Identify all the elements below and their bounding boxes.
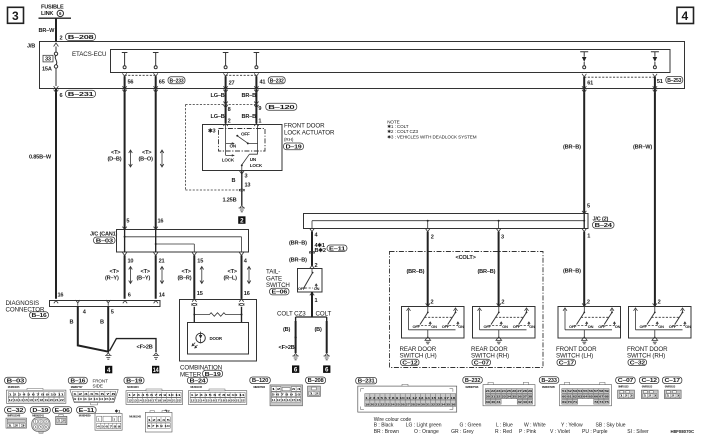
J/B box bbox=[40, 42, 685, 89]
rear door switch LH C-12 bbox=[402, 303, 465, 343]
svg-text:B✱2: B✱2 bbox=[315, 247, 326, 254]
svg-text:1: 1 bbox=[315, 298, 318, 304]
svg-text:MB807606: MB807606 bbox=[253, 385, 265, 389]
connector C-17 pinout bbox=[662, 377, 682, 384]
branch to second ground bbox=[110, 339, 157, 352]
svg-text:LG–B: LG–B bbox=[211, 93, 225, 99]
left branch wire (B) bbox=[295, 321, 297, 353]
svg-text:LINK: LINK bbox=[41, 11, 53, 17]
svg-text:0.85B–W: 0.85B–W bbox=[29, 155, 52, 161]
svg-text:1: 1 bbox=[587, 233, 590, 239]
connector B-03 pinout bbox=[5, 377, 27, 384]
wires J/C to combination meter bbox=[194, 255, 241, 299]
svg-text:1 2 3 4 5 6 7 8 9 10 11: 1 2 3 4 5 6 7 8 9 10 11 bbox=[191, 393, 246, 397]
fusible link label bbox=[41, 5, 64, 18]
svg-text:6: 6 bbox=[60, 93, 63, 99]
wire ETACS 51 down bbox=[654, 77, 656, 306]
svg-text:OFF: OFF bbox=[484, 324, 492, 329]
ECU pin ticks and dashed pairs bbox=[122, 73, 126, 76]
svg-text:(BR–B): (BR–B) bbox=[289, 240, 307, 246]
svg-text:(BR–B): (BR–B) bbox=[563, 269, 581, 275]
connector C-12 pinout bbox=[639, 377, 659, 384]
connector D-19 pinout bbox=[30, 407, 50, 414]
svg-text:4: 4 bbox=[682, 9, 689, 23]
svg-text:1 2 3: 1 2 3 bbox=[643, 394, 657, 398]
svg-text:C–17: C–17 bbox=[559, 361, 574, 367]
svg-text:FRONT DOOR: FRONT DOOR bbox=[284, 123, 325, 130]
svg-text:B–19: B–19 bbox=[205, 372, 221, 378]
svg-text:12 13 14 15 16 17 18 19 20 21: 12 13 14 15 16 17 18 19 20 21 22 bbox=[191, 399, 246, 403]
svg-text:3: 3 bbox=[12, 9, 19, 23]
svg-text:15A: 15A bbox=[42, 67, 52, 73]
svg-text:H8F08070C: H8F08070C bbox=[671, 429, 696, 434]
inline connector symbol bbox=[239, 189, 244, 191]
svg-text:(D–B): (D–B) bbox=[108, 156, 122, 162]
svg-text:ON: ON bbox=[458, 324, 464, 329]
svg-text:P : Pink: P : Pink bbox=[519, 429, 537, 435]
svg-text:V : Violet: V : Violet bbox=[550, 429, 571, 435]
svg-text:C–12: C–12 bbox=[642, 378, 657, 384]
svg-text:SB : Sky blue: SB : Sky blue bbox=[596, 423, 626, 429]
svg-text:56: 56 bbox=[128, 80, 134, 86]
svg-text:D–19: D–19 bbox=[32, 408, 48, 414]
svg-text:OFF: OFF bbox=[413, 324, 421, 329]
svg-text:69 70 71: 69 70 71 bbox=[562, 401, 578, 404]
svg-text:MU801015: MU801015 bbox=[190, 385, 202, 389]
front door lock actuator D-19 bbox=[223, 123, 258, 126]
svg-text:B–16: B–16 bbox=[32, 313, 47, 319]
svg-text:2: 2 bbox=[431, 300, 434, 306]
diagnosis ground wires bbox=[78, 306, 109, 352]
svg-text:B–16: B–16 bbox=[70, 378, 85, 384]
svg-text:2: 2 bbox=[228, 118, 231, 124]
svg-text:1.25B: 1.25B bbox=[223, 197, 237, 203]
svg-text:2: 2 bbox=[501, 300, 504, 306]
svg-text:MU801043: MU801043 bbox=[129, 414, 141, 418]
svg-text:0MR0153: 0MR0153 bbox=[665, 385, 676, 389]
svg-text:4: 4 bbox=[107, 367, 111, 374]
svg-text:0MR015348: 0MR015348 bbox=[7, 413, 21, 417]
tailgate switch output bbox=[310, 292, 314, 295]
page marker 3 bbox=[8, 7, 24, 23]
svg-text:E–11: E–11 bbox=[329, 246, 345, 252]
svg-text:B–24: B–24 bbox=[595, 223, 613, 229]
svg-text:(BR–B): (BR–B) bbox=[407, 269, 425, 275]
split bracket COLT variants bbox=[296, 317, 327, 321]
wire ETACS 27 to actuator bbox=[225, 76, 227, 123]
svg-text:✱3 : VEHICLES WITH DEADLOCK SY: ✱3 : VEHICLES WITH DEADLOCK SYSTEM bbox=[387, 134, 477, 139]
svg-text:2: 2 bbox=[315, 263, 318, 269]
svg-text:LOCK: LOCK bbox=[222, 157, 235, 162]
wire ETACS 41 to actuator bbox=[255, 76, 257, 123]
svg-text:21 22 23 24 25 26 27 28 29: 21 22 23 24 25 26 27 28 29 bbox=[486, 390, 533, 393]
svg-text:MU804645: MU804645 bbox=[8, 385, 20, 389]
deadlock dash-dot box bbox=[219, 129, 266, 152]
inline connector symbols bbox=[192, 303, 197, 305]
svg-text:B: B bbox=[70, 320, 74, 326]
svg-text:60 61 62 63 64 65 66 67 68: 60 61 62 63 64 65 66 67 68 bbox=[562, 396, 609, 399]
svg-text:LG : Light green: LG : Light green bbox=[406, 423, 442, 429]
svg-text:10: 10 bbox=[128, 258, 134, 264]
tailgate wire bbox=[311, 232, 313, 266]
svg-text:(BR–W): (BR–W) bbox=[633, 145, 652, 151]
svg-text:1 2 3: 1 2 3 bbox=[666, 394, 680, 398]
svg-text:L : Blue: L : Blue bbox=[496, 423, 513, 429]
svg-text:B–03: B–03 bbox=[96, 238, 113, 244]
svg-text:OFF: OFF bbox=[569, 324, 577, 329]
svg-text:OFF: OFF bbox=[241, 132, 250, 137]
svg-text:D–19: D–19 bbox=[286, 145, 302, 151]
svg-text:0M80KTW6: 0M80KTW6 bbox=[542, 385, 555, 389]
svg-text:27: 27 bbox=[229, 81, 235, 87]
svg-text:B–120: B–120 bbox=[252, 378, 268, 384]
connector C-32 pinout bbox=[5, 407, 26, 414]
svg-text:1 2 3 4 5: 1 2 3 4 5 bbox=[148, 418, 171, 422]
ground id 4 bbox=[105, 366, 112, 374]
svg-text:2: 2 bbox=[240, 218, 244, 225]
svg-text:ON: ON bbox=[588, 324, 594, 329]
svg-text:ON: ON bbox=[502, 324, 508, 329]
note text bbox=[387, 119, 477, 139]
ground id 6 bbox=[292, 365, 299, 373]
page marker 4 bbox=[677, 7, 694, 23]
svg-text:C–32: C–32 bbox=[7, 408, 24, 414]
COLT dash-dot variant box bbox=[390, 252, 544, 368]
svg-text:SI : Silver: SI : Silver bbox=[627, 429, 649, 435]
svg-text:51: 51 bbox=[657, 79, 663, 85]
svg-text:3: 3 bbox=[501, 234, 504, 240]
connector 2 B-208 bbox=[60, 33, 96, 41]
svg-text:5: 5 bbox=[587, 204, 590, 210]
connector B-24 pinout bbox=[187, 377, 207, 384]
svg-text:J/C (CAN1): J/C (CAN1) bbox=[90, 231, 118, 237]
rear door switch RH C-07 bbox=[473, 303, 536, 343]
svg-text:R : Red: R : Red bbox=[495, 429, 512, 435]
svg-text:1 2: 1 2 bbox=[57, 419, 66, 423]
ground id 6b bbox=[323, 365, 330, 373]
svg-text:<F>2B: <F>2B bbox=[137, 345, 153, 351]
inline connector symbol E-11 bbox=[309, 251, 314, 253]
svg-text:BR–W: BR–W bbox=[39, 28, 56, 34]
actuator ground wire pin 3 / 13 bbox=[240, 171, 244, 174]
svg-text:B–208: B–208 bbox=[68, 35, 94, 41]
connector B-232 pinout bbox=[463, 377, 483, 384]
right branch wire (B) bbox=[326, 321, 328, 353]
svg-text:UN: UN bbox=[250, 157, 257, 162]
svg-text:(RH): (RH) bbox=[284, 137, 294, 142]
meter inner box bbox=[188, 323, 249, 355]
svg-text:<T>: <T> bbox=[111, 150, 121, 156]
svg-text:ETACS-ECU: ETACS-ECU bbox=[72, 51, 106, 58]
svg-text:73 74 75: 73 74 75 bbox=[594, 401, 610, 404]
ECU driver pin 65 bbox=[153, 53, 159, 69]
svg-text:ON: ON bbox=[529, 324, 535, 329]
connector B-231 pinout bbox=[356, 377, 377, 384]
svg-text:30 31 32 33 34 35 36 37 38: 30 31 32 33 34 35 36 37 38 bbox=[486, 396, 533, 399]
svg-text:16: 16 bbox=[158, 219, 164, 225]
wire CAN from pin 56 bbox=[124, 76, 126, 229]
svg-text:65: 65 bbox=[159, 80, 165, 86]
svg-text:BR : Brown: BR : Brown bbox=[374, 429, 400, 435]
svg-text:ON: ON bbox=[615, 324, 621, 329]
svg-text:21: 21 bbox=[159, 258, 165, 264]
svg-text:OFF: OFF bbox=[298, 286, 306, 291]
svg-text:<F>2B: <F>2B bbox=[279, 345, 295, 351]
svg-text:B : Black: B : Black bbox=[374, 423, 394, 429]
svg-text:9 10 11 12 13 14 15 16: 9 10 11 12 13 14 15 16 bbox=[74, 397, 115, 401]
svg-text:1 2 3 4 5 6 7 8: 1 2 3 4 5 6 7 8 bbox=[73, 392, 116, 396]
svg-text:6: 6 bbox=[325, 367, 329, 374]
svg-text:C–32: C–32 bbox=[630, 361, 645, 367]
svg-text:Y : Yellow: Y : Yellow bbox=[561, 423, 583, 429]
svg-text:LG–B: LG–B bbox=[211, 114, 225, 120]
svg-text:16: 16 bbox=[244, 291, 250, 297]
wires J/C to diagnosis connector bbox=[125, 255, 156, 298]
svg-text:51 52 53 54 55 56 57 58 59: 51 52 53 54 55 56 57 58 59 bbox=[562, 390, 609, 393]
svg-text:0M80KTW6: 0M80KTW6 bbox=[465, 385, 478, 389]
arrow into J/B bbox=[54, 43, 59, 47]
svg-text:B–120: B–120 bbox=[268, 105, 294, 111]
ground id 2 bbox=[238, 216, 245, 224]
svg-text:B–231: B–231 bbox=[68, 92, 94, 98]
svg-text:E–06: E–06 bbox=[55, 408, 70, 414]
svg-text:DOOR: DOOR bbox=[210, 336, 223, 341]
wire BR-W from fusible link bbox=[55, 18, 57, 41]
svg-text:6 7 8 9 10: 6 7 8 9 10 bbox=[148, 424, 171, 428]
svg-text:B–19: B–19 bbox=[126, 378, 142, 384]
svg-text:<T>: <T> bbox=[110, 269, 120, 275]
svg-text:3 4: 3 4 bbox=[292, 387, 302, 391]
svg-text:61: 61 bbox=[587, 81, 593, 87]
svg-text:9: 9 bbox=[258, 106, 261, 112]
svg-text:(R–L): (R–L) bbox=[224, 276, 238, 282]
svg-text:1 2 3 4 5 6 7 8 9 10 11: 1 2 3 4 5 6 7 8 9 10 11 bbox=[128, 393, 182, 397]
svg-text:OFF: OFF bbox=[640, 324, 648, 329]
svg-text:OFF: OFF bbox=[598, 324, 606, 329]
svg-text:MU804529: MU804529 bbox=[79, 413, 91, 417]
svg-text:B–232: B–232 bbox=[270, 79, 284, 85]
fuse 33 15A bbox=[42, 47, 58, 87]
connector B-16 pinout bbox=[68, 377, 87, 384]
svg-text:B–232: B–232 bbox=[465, 378, 480, 384]
svg-text:W : White: W : White bbox=[524, 423, 546, 429]
svg-text:15: 15 bbox=[197, 291, 203, 297]
svg-text:(R–Y): (R–Y) bbox=[105, 276, 119, 282]
connector E-11 pinout bbox=[77, 407, 97, 414]
svg-text:SIDE: SIDE bbox=[93, 383, 103, 388]
svg-text:✱1: ✱1 bbox=[115, 408, 121, 413]
svg-text:1 2 3: 1 2 3 bbox=[620, 394, 634, 398]
svg-text:6: 6 bbox=[128, 293, 131, 299]
svg-text:2: 2 bbox=[587, 300, 590, 306]
svg-text:SWITCH (LH): SWITCH (LH) bbox=[400, 352, 437, 359]
svg-text:GR : Grey: GR : Grey bbox=[451, 429, 474, 435]
connector B-120 dashed boundary bbox=[186, 105, 257, 191]
svg-text:B–233: B–233 bbox=[170, 79, 184, 85]
svg-text:11 12 13 14 15 16: 11 12 13 14 15 16 bbox=[272, 398, 301, 402]
svg-text:13: 13 bbox=[245, 183, 251, 189]
svg-text:(BR–B): (BR–B) bbox=[289, 257, 307, 263]
svg-text:1 2 3: 1 2 3 bbox=[8, 423, 27, 427]
CAN bus line 2 bbox=[156, 244, 195, 252]
J/C through wires bbox=[125, 230, 156, 253]
svg-text:5 6 7 8 9 10: 5 6 7 8 9 10 bbox=[272, 393, 302, 397]
front door switch RH C-32 bbox=[629, 303, 692, 343]
svg-text:B–231: B–231 bbox=[358, 379, 375, 385]
svg-text:4 5 6 7 8 9: 4 5 6 7 8 9 bbox=[97, 425, 121, 429]
svg-text:(BR–B): (BR–B) bbox=[478, 269, 496, 275]
svg-text:3: 3 bbox=[245, 174, 248, 180]
svg-text:C–07: C–07 bbox=[474, 361, 489, 367]
fusible link bus bar bbox=[39, 17, 72, 19]
svg-text:B–253: B–253 bbox=[667, 78, 681, 84]
svg-text:B–03: B–03 bbox=[7, 378, 24, 384]
svg-text:1 2: 1 2 bbox=[309, 391, 320, 395]
svg-text:41: 41 bbox=[260, 80, 266, 86]
svg-text:B–24: B–24 bbox=[190, 378, 207, 384]
svg-text:PU : Purple: PU : Purple bbox=[582, 429, 608, 435]
svg-text:19 20 21 22 23 24 25 26 27 28: 19 20 21 22 23 24 25 26 27 28 29 30 31 3… bbox=[365, 403, 456, 406]
wire ETACS 61 down bbox=[583, 77, 585, 214]
svg-text:16: 16 bbox=[58, 293, 64, 299]
svg-text:39 40 41: 39 40 41 bbox=[486, 401, 502, 404]
connector B-120 pinout bbox=[250, 377, 270, 384]
svg-text:<T>: <T> bbox=[182, 269, 192, 275]
svg-text:G : Green: G : Green bbox=[460, 423, 482, 429]
actuator switch internals bbox=[222, 124, 263, 170]
connector B-233 pinout bbox=[539, 377, 559, 384]
svg-text:(B): (B) bbox=[283, 327, 291, 333]
J/C2 bus bbox=[312, 221, 584, 229]
svg-text:✱2 : COLT CZ3: ✱2 : COLT CZ3 bbox=[387, 129, 418, 134]
svg-text:✱3: ✱3 bbox=[208, 127, 215, 134]
svg-text:15: 15 bbox=[197, 258, 203, 264]
ground (tailgate colt) bbox=[324, 353, 330, 359]
svg-text:B: B bbox=[100, 320, 104, 326]
ECU diode pin 61 bbox=[580, 52, 588, 69]
svg-text:OFF: OFF bbox=[513, 324, 521, 329]
svg-text:(B): (B) bbox=[315, 327, 323, 333]
CAN bus line 1 bbox=[125, 237, 242, 252]
svg-text:C–17: C–17 bbox=[665, 378, 680, 384]
svg-text:8: 8 bbox=[228, 107, 231, 113]
svg-text:<T>: <T> bbox=[141, 269, 151, 275]
ground (F2B) bbox=[153, 353, 159, 359]
connector E-06 pinout bbox=[53, 407, 72, 414]
svg-text:J/B: J/B bbox=[27, 44, 35, 50]
svg-text:2: 2 bbox=[431, 234, 434, 240]
ground (actuator) bbox=[239, 205, 245, 211]
ECU driver pin 27 bbox=[223, 53, 229, 69]
door lamp symbol bbox=[192, 332, 223, 348]
svg-text:12 13 14 15 16 17 18 19 20 21: 12 13 14 15 16 17 18 19 20 21 22 bbox=[9, 398, 65, 402]
svg-text:B: B bbox=[232, 178, 236, 184]
svg-text:<COLT>: <COLT> bbox=[456, 255, 477, 261]
front door switch wires bbox=[583, 232, 585, 306]
svg-text:33: 33 bbox=[45, 57, 51, 63]
svg-text:0MR0153: 0MR0153 bbox=[642, 385, 653, 389]
svg-text:MB802541: MB802541 bbox=[32, 413, 44, 417]
svg-text:5: 5 bbox=[126, 219, 129, 225]
svg-text:ON: ON bbox=[431, 324, 437, 329]
front door switch LH C-17 bbox=[558, 303, 621, 343]
svg-text:C–12: C–12 bbox=[402, 361, 417, 367]
ground id 14 bbox=[152, 366, 159, 374]
svg-text:(B–Y): (B–Y) bbox=[137, 276, 151, 282]
svg-text:1 2: 1 2 bbox=[272, 387, 282, 391]
svg-text:<T>: <T> bbox=[142, 150, 152, 156]
svg-text:1 2 3 4 5 6 7 8 9 10 11: 1 2 3 4 5 6 7 8 9 10 11 bbox=[9, 393, 65, 397]
svg-text:ON: ON bbox=[658, 324, 664, 329]
svg-text:(B–R): (B–R) bbox=[178, 276, 192, 282]
svg-text:MB807707: MB807707 bbox=[71, 385, 83, 389]
connector C-07 pinout bbox=[616, 377, 636, 384]
svg-text:SWITCH (RH): SWITCH (RH) bbox=[627, 352, 665, 359]
ground (tailgate colt cz3) bbox=[292, 353, 298, 359]
svg-text:SWITCH (LH): SWITCH (LH) bbox=[556, 352, 593, 359]
svg-text:C–07: C–07 bbox=[618, 378, 633, 384]
svg-text:LOCK ACTUATOR: LOCK ACTUATOR bbox=[284, 130, 335, 137]
svg-text:COLT CZ3: COLT CZ3 bbox=[277, 310, 306, 317]
svg-text:O : Orange: O : Orange bbox=[414, 429, 439, 435]
svg-text:2: 2 bbox=[60, 36, 63, 42]
svg-text:42 43 44: 42 43 44 bbox=[518, 401, 534, 404]
J/C exit arrows bbox=[122, 252, 243, 255]
ground (diagnosis) bbox=[105, 353, 111, 359]
ETACS-ECU box bbox=[111, 50, 671, 73]
svg-text:SWITCH (RH): SWITCH (RH) bbox=[471, 352, 509, 359]
svg-text:<T>: <T> bbox=[228, 269, 238, 275]
svg-text:1: 1 bbox=[258, 118, 261, 124]
svg-text:B–233: B–233 bbox=[541, 378, 556, 384]
svg-text:ON: ON bbox=[314, 286, 320, 291]
svg-text:ON: ON bbox=[230, 143, 237, 148]
ECU driver pin 41 bbox=[254, 53, 260, 69]
rear door switch wires bbox=[427, 232, 429, 306]
svg-text:OFF: OFF bbox=[442, 324, 450, 329]
wire CAN from pin 65 bbox=[155, 76, 157, 229]
svg-text:LOCK: LOCK bbox=[250, 163, 263, 168]
svg-text:COLT: COLT bbox=[316, 310, 332, 317]
svg-text:6: 6 bbox=[294, 367, 298, 374]
svg-text:E–06: E–06 bbox=[272, 290, 288, 296]
svg-text:(BR–B): (BR–B) bbox=[563, 145, 581, 151]
svg-text:B–208: B–208 bbox=[308, 378, 324, 384]
connector B-231 label bbox=[66, 90, 96, 97]
svg-text:BR–B: BR–B bbox=[242, 93, 257, 99]
svg-text:1 2 3 4 5 6 7 8 9 10 11 12 13: 1 2 3 4 5 6 7 8 9 10 11 12 13 14 15 16 1… bbox=[365, 397, 456, 400]
svg-text:(B–O): (B–O) bbox=[139, 156, 154, 162]
connector B-19 pinout bbox=[124, 377, 144, 384]
svg-text:2: 2 bbox=[658, 300, 661, 306]
svg-text:ON: ON bbox=[685, 324, 691, 329]
meter resistor bbox=[194, 313, 241, 317]
svg-text:5: 5 bbox=[111, 310, 114, 316]
ECU diode pin 51 bbox=[651, 52, 659, 69]
svg-text:12 13 14 15 16 17 18 19 20 21: 12 13 14 15 16 17 18 19 20 21 22 bbox=[128, 399, 181, 403]
svg-text:E–11: E–11 bbox=[79, 408, 94, 414]
svg-text:0MR0153: 0MR0153 bbox=[618, 385, 629, 389]
svg-text:OFF: OFF bbox=[669, 324, 677, 329]
ECU driver pin 56 bbox=[122, 53, 128, 69]
svg-text:BR–B: BR–B bbox=[242, 114, 257, 120]
connector B-208 pinout bbox=[306, 377, 326, 384]
wire B-W left branch bbox=[55, 89, 57, 299]
svg-text:MU801015: MU801015 bbox=[127, 385, 139, 389]
svg-text:14: 14 bbox=[153, 367, 159, 374]
